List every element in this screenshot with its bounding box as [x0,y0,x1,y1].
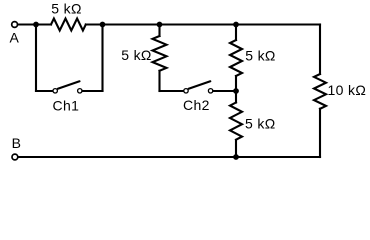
switch Ch1 right contact [78,89,82,93]
node junction top-3 [157,22,163,28]
svg-text:B: B [12,135,22,151]
resistor 5 kOhm (lower right vertical) [230,103,242,140]
svg-text:10 kΩ: 10 kΩ [328,82,367,98]
wire right edge vertical [319,25,321,75]
node junction top-2 [100,22,106,28]
resistor 5 kOhm (middle vertical) [153,36,167,71]
node junction top-1 [33,22,39,28]
svg-text:5 kΩ: 5 kΩ [121,47,152,63]
switch Ch1 blade [58,81,80,88]
node junction bottom [233,154,239,160]
wire middle branch top lead [158,25,160,37]
wire 10k to bottom wire [319,109,321,157]
terminal B [12,154,18,160]
svg-text:A: A [10,30,20,46]
svg-text:Ch1: Ch1 [53,98,80,114]
wire lower 5k to bottom wire [235,140,237,157]
svg-text:5 kΩ: 5 kΩ [245,116,276,132]
switch Ch2 left contact [184,89,188,93]
resistor 10 kOhm (right) [314,74,326,109]
wire right-mid branch top lead [235,25,237,41]
wire A to node 1 [18,23,51,25]
wire Ch1 branch to switch [36,90,53,92]
node junction mid-right [233,88,239,94]
wire Ch2 switch to node [213,90,236,92]
wire bottom from B to right edge [19,156,321,158]
svg-text:5 kΩ: 5 kΩ [51,1,82,17]
terminal A [12,22,18,28]
switch Ch2 blade [189,81,211,88]
wire Ch1 branch right vertical [101,25,103,92]
wire upper 5k to node [235,76,237,103]
switch Ch2 right contact [208,89,212,93]
switch Ch1 left contact [53,89,57,93]
wire R-top to top-right corner [86,23,320,25]
svg-text:5 kΩ: 5 kΩ [245,48,276,64]
wire Ch1 branch left vertical [35,25,37,92]
resistor 5 kOhm (top horizontal) [51,19,86,31]
svg-text:Ch2: Ch2 [183,97,210,113]
wire to Ch2 switch [160,90,184,92]
wire middle resistor to Ch2 level [158,71,160,91]
node junction top-4 [233,22,239,28]
resistor 5 kOhm (upper right vertical) [230,40,242,76]
wire Ch1 switch to right vertical [82,90,102,92]
